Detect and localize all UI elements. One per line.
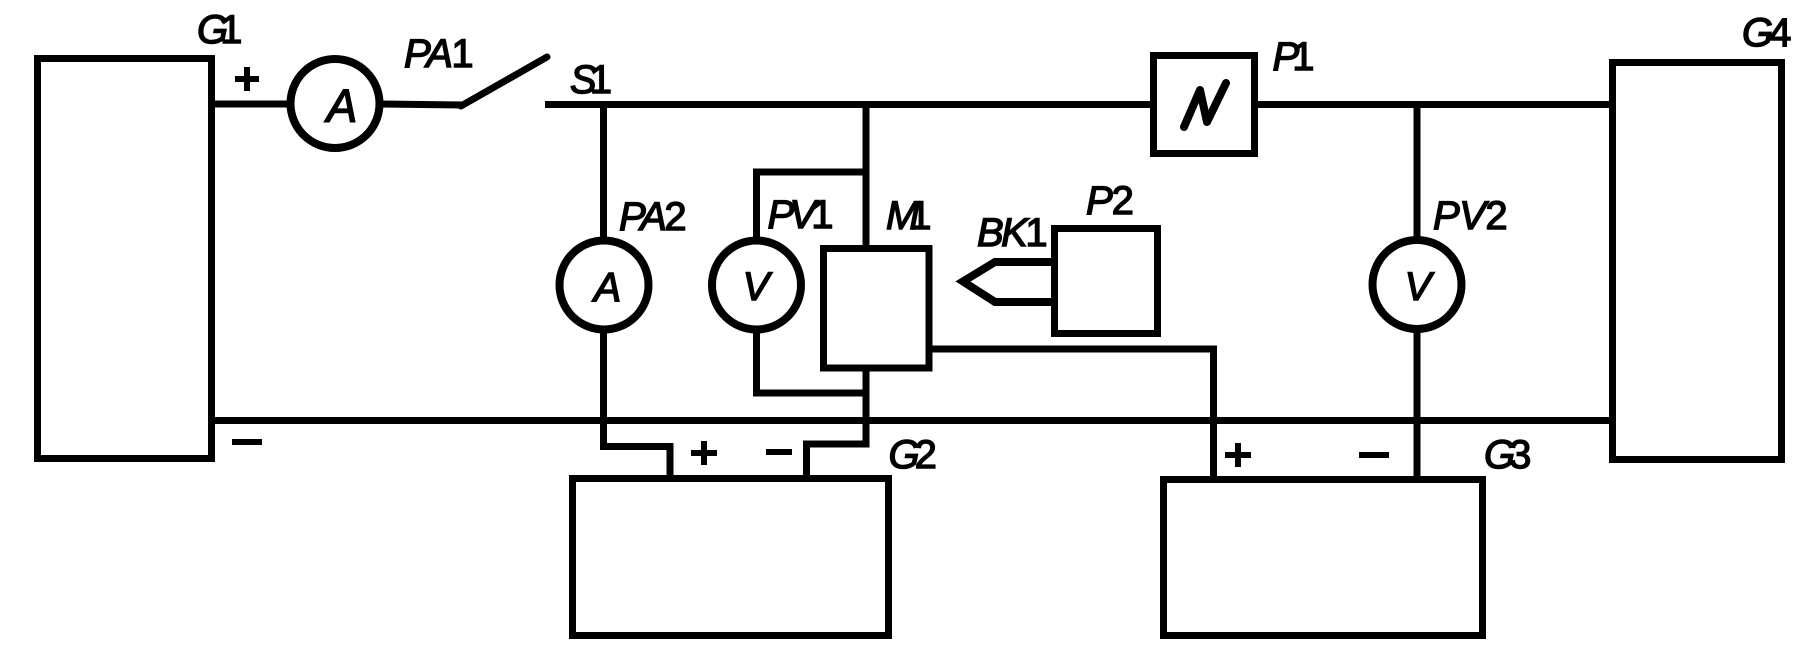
battery G2	[573, 479, 889, 636]
wire PV2 to G3 minus	[1414, 329, 1421, 480]
svg-text:PV2: PV2	[1433, 194, 1508, 238]
svg-text:G4: G4	[1742, 11, 1791, 55]
svg-text:M1: M1	[886, 194, 932, 238]
wire top bus S1 to P1	[545, 101, 1154, 108]
device P2	[1055, 229, 1158, 334]
plus sign G1	[235, 67, 259, 91]
minus sign G3	[1359, 452, 1389, 458]
device P1	[1154, 56, 1255, 154]
wire PV1 bottom to M1 bottom	[757, 329, 867, 393]
battery G1	[38, 59, 212, 459]
svg-text:G1: G1	[197, 8, 242, 52]
wire P1 to G4	[1254, 101, 1613, 108]
svg-text:G2: G2	[889, 433, 937, 477]
svg-text:V: V	[743, 265, 773, 309]
svg-text:S1: S1	[570, 58, 612, 102]
switch S1 blade	[461, 57, 547, 106]
wire bottom bus	[211, 417, 1613, 424]
wire branch to PV2	[1414, 101, 1421, 241]
plus sign G3	[1225, 443, 1251, 467]
voltmeter PV1	[712, 241, 801, 330]
wire branch to M1	[863, 101, 870, 252]
zigzag symbol in P1	[1184, 83, 1226, 127]
minus sign G2	[766, 449, 792, 455]
wire M1 right to G3 plus	[926, 349, 1214, 480]
svg-text:P2: P2	[1086, 179, 1134, 223]
svg-text:PA1: PA1	[404, 32, 474, 76]
voltmeter PV2	[1373, 240, 1462, 329]
thermal sensor BK1	[963, 262, 1051, 302]
wire branch to PA2	[600, 101, 607, 241]
svg-text:BK1: BK1	[977, 211, 1048, 255]
svg-text:A: A	[324, 80, 358, 132]
svg-text:A: A	[591, 264, 621, 310]
wire M1 bottom to G2 minus	[807, 365, 867, 479]
minus sign G1	[232, 439, 262, 445]
wire PA1 to switch	[378, 104, 463, 105]
plus sign G2	[691, 441, 717, 465]
generator G4	[1613, 63, 1782, 460]
svg-text:P1: P1	[1273, 35, 1315, 79]
motor M1	[824, 249, 930, 369]
wire G1 to PA1	[211, 101, 292, 108]
svg-text:V: V	[1405, 265, 1435, 309]
svg-text:PA2: PA2	[619, 195, 687, 239]
svg-text:G3: G3	[1484, 433, 1531, 477]
svg-text:PV1: PV1	[768, 193, 834, 237]
wire branch to PV1	[757, 172, 867, 241]
battery G3	[1164, 480, 1483, 636]
wire PA2 to G2 plus	[604, 329, 671, 479]
ammeter PA2	[560, 241, 649, 330]
ammeter PA1	[291, 59, 380, 148]
